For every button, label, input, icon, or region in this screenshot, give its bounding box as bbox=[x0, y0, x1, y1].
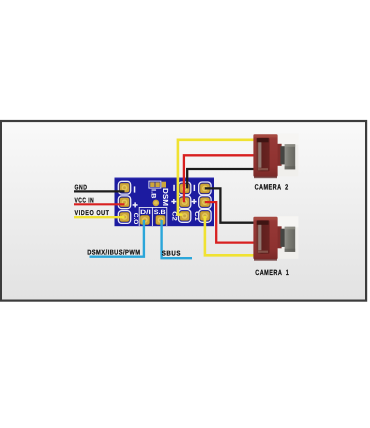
svg-text:CAMERA 1: CAMERA 1 bbox=[255, 268, 289, 277]
svg-text:S.B: S.B bbox=[154, 209, 166, 216]
content frame box bbox=[1, 121, 366, 301]
wire GND (black) bbox=[74, 190, 125, 192]
svg-text:C2: C2 bbox=[170, 211, 177, 221]
wire camera2 red bbox=[184, 155, 254, 202]
svg-text:I.B: I.B bbox=[150, 189, 157, 199]
pad C1 top bbox=[200, 184, 210, 193]
silk minus left column bbox=[134, 186, 136, 192]
silk plus left column bbox=[133, 202, 138, 207]
wire camera1 yellow bbox=[205, 216, 255, 255]
pad C.O 2 bbox=[120, 198, 130, 207]
svg-text:VCC IN: VCC IN bbox=[75, 197, 95, 204]
svg-text:DSM: DSM bbox=[161, 188, 170, 206]
svg-text:GND: GND bbox=[75, 184, 88, 191]
pad C2 top bbox=[180, 184, 190, 193]
svg-text:CAMERA 2: CAMERA 2 bbox=[255, 183, 289, 192]
pad C1 bottom bbox=[200, 211, 210, 220]
wire camera1 red bbox=[205, 202, 254, 243]
pad TP1 (gold dot) bbox=[153, 200, 160, 207]
silk plus C2 column bbox=[171, 199, 176, 204]
wire camera2 yellow bbox=[178, 140, 254, 215]
pad C2 mid bbox=[180, 198, 190, 207]
silk D/I box bbox=[139, 207, 167, 226]
silk S.B box bbox=[152, 207, 166, 226]
camera 1 bbox=[253, 216, 298, 260]
wire VCC IN (red) bbox=[74, 203, 125, 205]
pad C2 bottom bbox=[180, 211, 190, 220]
wire camera2 black bbox=[187, 169, 254, 188]
svg-text:D/I: D/I bbox=[140, 209, 151, 216]
pad C.O 3 bbox=[120, 212, 130, 221]
wire camera1 black bbox=[205, 188, 254, 222]
pad S.B bbox=[156, 215, 166, 224]
wire VIDEO OUT (yellow) bbox=[74, 216, 125, 218]
silk plus C1 column bbox=[192, 199, 197, 204]
silk minus C2 column bbox=[173, 185, 175, 191]
pad group C.O outlines bbox=[118, 181, 130, 223]
pad group C2 outlines bbox=[178, 182, 190, 222]
PCB board bbox=[115, 178, 215, 227]
pad C.O 1 bbox=[120, 183, 130, 192]
svg-text:SBUS: SBUS bbox=[162, 250, 181, 257]
IC footprint U1 bbox=[149, 181, 166, 188]
svg-text:DSMX/IBUS/PWM: DSMX/IBUS/PWM bbox=[87, 248, 140, 256]
silk minus C1 column bbox=[194, 185, 196, 191]
svg-text:C.O: C.O bbox=[132, 213, 139, 225]
pad C1 mid bbox=[200, 198, 210, 207]
wire DSMX/IBUS/PWM (cyan) bbox=[90, 220, 144, 257]
pad group C1 outlines bbox=[199, 182, 211, 222]
wire SBUS (cyan) bbox=[162, 220, 192, 258]
camera 2 bbox=[253, 134, 298, 178]
svg-text:VIDEO OUT: VIDEO OUT bbox=[75, 210, 110, 217]
pad D/I bbox=[140, 215, 150, 224]
